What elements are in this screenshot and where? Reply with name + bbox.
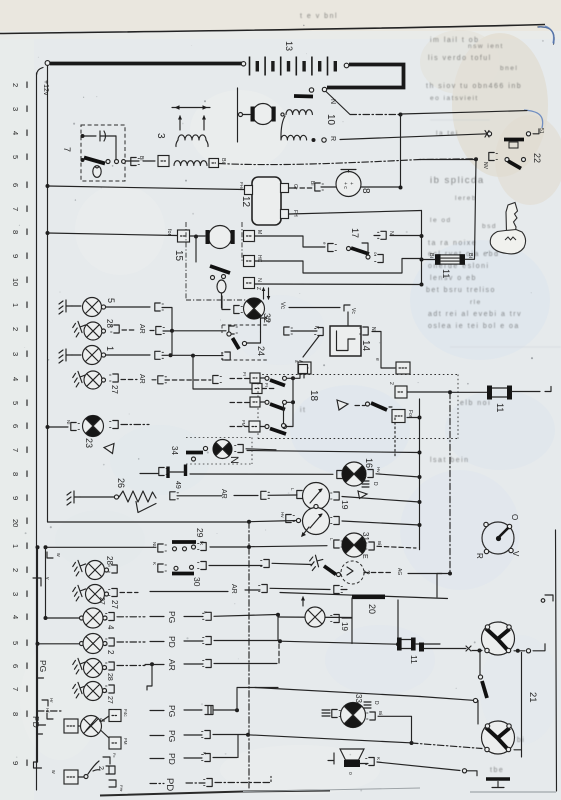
- svg-text:M: M: [256, 230, 262, 234]
- component 49 bars: [159, 468, 168, 476]
- svg-text:10: 10: [325, 114, 336, 126]
- wire fuse links: [422, 258, 475, 260]
- svg-text:fK: fK: [199, 541, 204, 545]
- svg-text:20: 20: [367, 604, 377, 614]
- svg-text:7: 7: [11, 687, 20, 691]
- wire 33 out: [378, 716, 412, 743]
- wire starter feed: [237, 88, 239, 142]
- svg-text:FHr: FHr: [119, 785, 124, 792]
- svg-text:15: 15: [173, 250, 184, 262]
- wire headlamp1 row: [424, 648, 466, 650]
- svg-text:bnel: bnel: [500, 65, 518, 72]
- wire 664 branch down: [147, 664, 152, 690]
- wire row PG 710: [38, 710, 63, 712]
- wire box7 out: [125, 160, 139, 162]
- svg-text:33: 33: [354, 694, 363, 703]
- voltage regulator 12: [252, 177, 281, 225]
- wire beam switch row: [420, 697, 473, 701]
- svg-text:5: 5: [106, 298, 116, 303]
- wire row664 right: [214, 663, 277, 665]
- svg-text:7: 7: [11, 448, 20, 452]
- svg-text:FHc: FHc: [239, 182, 244, 191]
- svg-text:21: 21: [527, 692, 538, 703]
- capacitor in box 7: [82, 131, 100, 141]
- svg-text:PG: PG: [38, 660, 48, 672]
- node row28: [170, 329, 174, 333]
- headlamp 1: [482, 622, 515, 655]
- svg-text:N: N: [370, 327, 376, 331]
- vertical rail x249: [248, 522, 250, 788]
- wire 49 link: [140, 473, 158, 475]
- wire battery loop (thick): [327, 65, 404, 88]
- svg-text:5: 5: [11, 401, 20, 405]
- svg-text:27: 27: [110, 385, 119, 394]
- wire 30 row out: [209, 565, 262, 567]
- svg-text:7: 7: [62, 147, 72, 152]
- wire beam switch drop: [479, 653, 481, 676]
- svg-text:3: 3: [155, 133, 166, 139]
- wire for links: [355, 406, 392, 408]
- wire FH bus row: [289, 211, 422, 215]
- dotted box 34: [186, 438, 252, 465]
- flasher unit 14: [330, 326, 361, 356]
- svg-text:AR: AR: [220, 489, 227, 499]
- switch 30: [158, 564, 167, 572]
- relay bar 20: [352, 595, 385, 600]
- svg-text:N: N: [388, 231, 394, 235]
- wire lamp1 row: [106, 354, 151, 356]
- svg-text:lensv o eb: lensv o eb: [430, 275, 477, 282]
- terminal For box: [392, 410, 405, 423]
- svg-text:PD: PD: [167, 753, 177, 765]
- switch 10: [322, 87, 326, 91]
- wire headlamp2 feed: [412, 743, 483, 749]
- node motor feed: [194, 235, 198, 239]
- blue ink curl mid right: [524, 110, 543, 128]
- wire bus row 597: [280, 593, 448, 599]
- svg-text:D: D: [373, 701, 379, 705]
- svg-text:24: 24: [256, 346, 266, 356]
- wire step row HC: [255, 259, 422, 274]
- terminal K 14: [315, 328, 324, 336]
- component 2 bottom: [34, 762, 42, 768]
- wire +12v rail: [47, 66, 49, 522]
- svg-text:For: For: [407, 410, 413, 418]
- wire +12v feed (thick): [50, 62, 242, 66]
- svg-text:3: 3: [11, 592, 20, 596]
- bracket v: [33, 578, 41, 586]
- svg-text:27: 27: [98, 597, 105, 605]
- wire bus row 688: [255, 688, 420, 697]
- svg-text:2: 2: [11, 568, 20, 572]
- wire flasher out: [364, 572, 392, 574]
- svg-text:11: 11: [495, 403, 505, 412]
- svg-text:3: 3: [11, 107, 20, 111]
- svg-text:+ c: + c: [342, 182, 348, 189]
- svg-text:N: N: [228, 456, 240, 464]
- svg-text:Bi: Bi: [428, 253, 434, 258]
- wire bus row 8: [46, 231, 50, 235]
- svg-text:le od: le od: [430, 217, 452, 224]
- wire lamp27 row dashed: [121, 379, 137, 381]
- svg-text:27: 27: [110, 600, 119, 609]
- svg-text:9: 9: [11, 496, 20, 500]
- lamp 32: [234, 306, 243, 314]
- switch 29: [158, 544, 167, 552]
- svg-text:nsw ient: nsw ient: [468, 43, 504, 50]
- fuse 11 bottom: [397, 638, 416, 651]
- svg-text:1: 1: [11, 544, 20, 548]
- wire AR row 590: [120, 592, 138, 594]
- terminal box right: [396, 362, 410, 374]
- wire generator output: [361, 186, 401, 188]
- box 7 dashed enclosure: [81, 125, 125, 181]
- wire gauge19b out: [342, 521, 420, 525]
- node battery terminal: [344, 63, 349, 68]
- dash-dot box around 15: [186, 222, 254, 300]
- terminal for: [178, 230, 190, 242]
- svg-text:6: 6: [11, 424, 20, 428]
- terminal a 18: [299, 365, 308, 374]
- svg-text:V: V: [511, 551, 520, 557]
- svg-text:30: 30: [192, 577, 202, 587]
- svg-text:4: 4: [11, 131, 20, 135]
- svg-text:AR: AR: [138, 324, 145, 334]
- switch in box 7: [84, 158, 105, 164]
- svg-text:7: 7: [11, 207, 20, 211]
- headlamp 2: [482, 721, 515, 754]
- svg-text:Fc: Fc: [112, 753, 117, 757]
- svg-text:26: 26: [116, 478, 126, 488]
- svg-text:28: 28: [106, 673, 113, 681]
- wire 34 row out: [246, 449, 276, 450]
- svg-text:6: 6: [11, 664, 20, 668]
- svg-text:t e v bnl: t e v bnl: [300, 13, 338, 20]
- svg-text:11: 11: [409, 655, 419, 664]
- svg-text:AR: AR: [230, 584, 237, 594]
- wire 17 N out: [390, 235, 422, 237]
- lamp 1: [59, 349, 72, 363]
- svg-text:for: for: [166, 229, 172, 236]
- switch 18a: [230, 378, 250, 380]
- wire 21 vertical: [521, 653, 523, 758]
- svg-text:8: 8: [11, 230, 20, 234]
- bulb switch 15: [217, 280, 226, 293]
- svg-text:AG: AG: [396, 568, 402, 575]
- svg-text:FM: FM: [241, 420, 246, 427]
- terminal HC: [244, 256, 255, 267]
- wire regulator to generator: [289, 187, 297, 189]
- ignition switch 22 contacts: [487, 132, 491, 136]
- svg-text:12: 12: [240, 196, 251, 208]
- wire row 547 brackets: [36, 545, 40, 549]
- svg-text:ta ra noixe: ta ra noixe: [428, 240, 477, 247]
- svg-text:D: D: [372, 482, 378, 486]
- wire down to generator bus: [400, 115, 402, 188]
- svg-text:oslea ie tei bol e oa: oslea ie tei bol e oa: [428, 323, 520, 330]
- svg-text:5: 5: [11, 155, 20, 159]
- switch 18c: [230, 426, 249, 428]
- fuse 11 right: [487, 386, 512, 400]
- vertical rail x45 lower: [45, 547, 47, 618]
- bus rail x419: [419, 399, 421, 548]
- svg-text:K: K: [152, 562, 157, 565]
- starter motor: [251, 104, 276, 125]
- component 4 bottom: [38, 724, 46, 726]
- bracket below flasher: [334, 586, 343, 594]
- svg-text:PG: PG: [167, 705, 177, 717]
- svg-text:K: K: [202, 752, 207, 755]
- wire fuse to edge: [512, 391, 540, 393]
- wire HT dash-dot line: [219, 159, 474, 165]
- terminal N 14: [360, 327, 369, 335]
- wire row N long: [255, 283, 422, 286]
- wire bus row 547: [46, 546, 328, 548]
- svg-text:2: 2: [11, 83, 20, 87]
- lamp 27 bottom: [71, 680, 88, 698]
- marks ED 16: [362, 481, 369, 487]
- wire row AR 664: [117, 665, 145, 667]
- svg-text:NL: NL: [152, 542, 157, 548]
- bottom right faint line: [470, 791, 556, 793]
- svg-text:Bi: Bi: [467, 253, 473, 258]
- svg-text:Hr: Hr: [49, 698, 54, 703]
- svg-text:R: R: [329, 136, 336, 141]
- arrow pair near 32: [264, 288, 269, 299]
- svg-text:13: 13: [284, 41, 294, 51]
- svg-text:lereb: lereb: [455, 195, 477, 202]
- svg-text:O: O: [510, 514, 519, 520]
- wire row1 branch down: [193, 356, 252, 389]
- wire 26 row AR: [170, 492, 179, 500]
- wire ignition dash-dot: [350, 114, 400, 116]
- svg-text:4: 4: [11, 615, 20, 619]
- top rule line: [0, 25, 545, 34]
- svg-text:tbe: tbe: [490, 767, 504, 774]
- terminal N: [244, 278, 255, 289]
- wire fuse row 643: [397, 600, 399, 644]
- svg-text:Hv: Hv: [376, 467, 381, 473]
- lamp 28 lower: [71, 558, 88, 576]
- arrow mark gauge: [302, 527, 309, 536]
- coil 3: [178, 135, 206, 140]
- wire 18 out to bus: [293, 374, 300, 378]
- svg-text:27: 27: [106, 696, 113, 704]
- svg-text:FM: FM: [123, 738, 128, 745]
- vertical dash rail x450: [449, 392, 451, 573]
- vertical dash rail x395: [394, 418, 396, 458]
- svg-text:w: w: [50, 770, 56, 774]
- svg-text:Hv: Hv: [280, 512, 285, 518]
- svg-text:Gr: Gr: [292, 184, 298, 190]
- dotted frame 18 area: [258, 375, 458, 439]
- wire headlamp1 right: [514, 650, 525, 652]
- svg-text:Hf: Hf: [45, 708, 50, 713]
- svg-text:6: 6: [11, 183, 20, 187]
- switch 24 dashed box: [222, 325, 268, 360]
- svg-text:31: 31: [361, 532, 370, 541]
- svg-text:Fr: Fr: [242, 372, 247, 377]
- svg-text:19: 19: [340, 500, 350, 510]
- svg-text:Bi: Bi: [378, 711, 383, 715]
- svg-text:10: 10: [11, 278, 20, 286]
- svg-text:AR: AR: [138, 374, 145, 384]
- svg-text:1: 1: [11, 303, 20, 307]
- svg-text:Bi: Bi: [220, 158, 226, 163]
- battery 13: [250, 57, 336, 76]
- svg-text:K: K: [376, 757, 381, 760]
- svg-text:18: 18: [308, 390, 319, 402]
- svg-text:Vc: Vc: [350, 308, 356, 314]
- terminal Fr: [252, 384, 262, 394]
- headlamp fuse bar: [419, 643, 424, 652]
- wire bus row 450: [247, 451, 420, 453]
- component 3 pickup arrows: [172, 107, 210, 109]
- wire step row HI: [255, 236, 325, 247]
- ignition coil 2: [158, 156, 169, 167]
- svg-text:N: N: [256, 278, 262, 282]
- lamp 27 lower: [71, 583, 88, 601]
- lamp 2 row: [36, 642, 40, 646]
- svg-text:19: 19: [340, 622, 349, 631]
- svg-text:23: 23: [84, 438, 94, 448]
- lamp 31: [334, 540, 343, 548]
- switch upper right: [366, 402, 370, 406]
- bulb in box 7: [93, 166, 101, 178]
- svg-text:+: +: [348, 182, 354, 185]
- svg-text:49: 49: [174, 481, 181, 489]
- vertical rail x37 lower: [37, 547, 39, 762]
- svg-text:Bi: Bi: [138, 156, 144, 160]
- svg-text:ib splicda: ib splicda: [430, 175, 485, 186]
- svg-text:it: it: [300, 407, 307, 414]
- svg-text:2: 2: [11, 327, 20, 331]
- terminal FM4: [101, 731, 109, 739]
- wire 17a up: [362, 243, 368, 255]
- node box7 junctions: [81, 134, 85, 138]
- flasher 2 dashed circle: [341, 561, 364, 584]
- svg-text:2: 2: [106, 650, 115, 655]
- svg-text:8: 8: [360, 188, 371, 194]
- node +12v: [45, 61, 50, 66]
- svg-text:rle: rle: [470, 299, 482, 306]
- switch 22 NV contact: [420, 159, 474, 161]
- svg-text:PG: PG: [167, 611, 177, 623]
- fuse 11: [435, 254, 465, 265]
- switch 18b: [230, 402, 250, 404]
- ground bar bottom right: [486, 777, 510, 781]
- wire ignition line right: [401, 111, 528, 114]
- flasher 2 ground: [309, 554, 325, 571]
- svg-text:bet bsru treliso: bet bsru treliso: [426, 287, 496, 294]
- terminal F4c: [101, 716, 109, 722]
- svg-text:N: N: [329, 99, 336, 104]
- gauge 19 upper: [297, 491, 306, 499]
- svg-text:Fr: Fr: [264, 383, 269, 388]
- wire row4 to PG: [117, 616, 145, 618]
- ignition coil primary: [281, 113, 284, 116]
- lamp 23: [46, 425, 50, 429]
- generator 8: [336, 170, 361, 197]
- wire 14 to boxes: [381, 360, 395, 369]
- svg-text:Z: Z: [255, 287, 261, 290]
- svg-text:NV: NV: [482, 162, 488, 170]
- blue ink curl top right: [538, 27, 554, 44]
- svg-text:adt rei al evebi a trv: adt rei al evebi a trv: [428, 311, 522, 318]
- svg-text:th siov tu obn466 inb: th siov tu obn466 inb: [426, 83, 522, 90]
- svg-text:51: 51: [538, 128, 544, 134]
- svg-text:w: w: [55, 553, 61, 557]
- svg-text:E: E: [361, 554, 368, 559]
- svg-text:4: 4: [106, 625, 115, 630]
- lamp 4 row: [44, 616, 48, 620]
- svg-text:14: 14: [360, 340, 371, 352]
- wire bus row 641: [214, 640, 278, 642]
- bottom rule line: [100, 791, 330, 796]
- wire R line to switch 22: [340, 134, 487, 140]
- wire row28-row1 link: [171, 331, 173, 356]
- wire 31 out dashed: [377, 546, 416, 548]
- wire thick riser: [236, 689, 238, 711]
- svg-text:8: 8: [11, 472, 20, 476]
- svg-text:lis verdo toful: lis verdo toful: [428, 55, 492, 62]
- wire N 14 down: [372, 332, 381, 360]
- node left edge 425: [282, 424, 286, 428]
- svg-text:8: 8: [11, 712, 20, 716]
- park switch in 15: [195, 237, 197, 262]
- wire right border: [556, 530, 557, 791]
- wire bus row 522: [48, 521, 249, 523]
- svg-text:9: 9: [11, 761, 20, 765]
- lamp 16: [337, 471, 346, 479]
- svg-text:2: 2: [97, 766, 104, 770]
- switch 17a: [347, 247, 351, 251]
- margin light strip: [0, 39, 34, 800]
- svg-text:1: 1: [105, 346, 115, 351]
- svg-text:29: 29: [195, 528, 205, 538]
- resistor 26: [67, 491, 80, 505]
- wire headlamp2 right link: [514, 749, 522, 751]
- lamp N 34: [213, 440, 232, 459]
- svg-text:28: 28: [105, 556, 114, 565]
- terminal M: [244, 231, 255, 242]
- svg-text:PD: PD: [31, 716, 41, 728]
- lamp 19 indicator: [302, 597, 304, 606]
- wire 16 out: [376, 474, 420, 477]
- svg-text:R: R: [475, 553, 484, 559]
- wire 24 R out: [261, 318, 267, 332]
- svg-text:Vc: Vc: [279, 302, 285, 309]
- rotary switch: [482, 522, 514, 554]
- svg-text:34: 34: [170, 446, 179, 455]
- node coil out: [312, 138, 316, 142]
- wire fuse row right: [407, 391, 448, 393]
- lamp 28: [71, 319, 88, 337]
- svg-text:NI: NI: [66, 420, 71, 425]
- relay contact A: [303, 336, 319, 357]
- bleed-through text: [300, 13, 561, 774]
- wire row2 to PD: [117, 641, 145, 643]
- wire bus row 475: [190, 473, 333, 475]
- svg-text:5: 5: [11, 641, 20, 645]
- lamp 27: [71, 369, 88, 387]
- triangle mark: [337, 400, 348, 410]
- svg-text:32: 32: [262, 313, 272, 323]
- svg-text:3: 3: [11, 352, 20, 356]
- ignition coil secondary: [281, 135, 307, 140]
- svg-text:PD: PD: [167, 636, 177, 648]
- wire lamp28 row AR: [122, 329, 134, 331]
